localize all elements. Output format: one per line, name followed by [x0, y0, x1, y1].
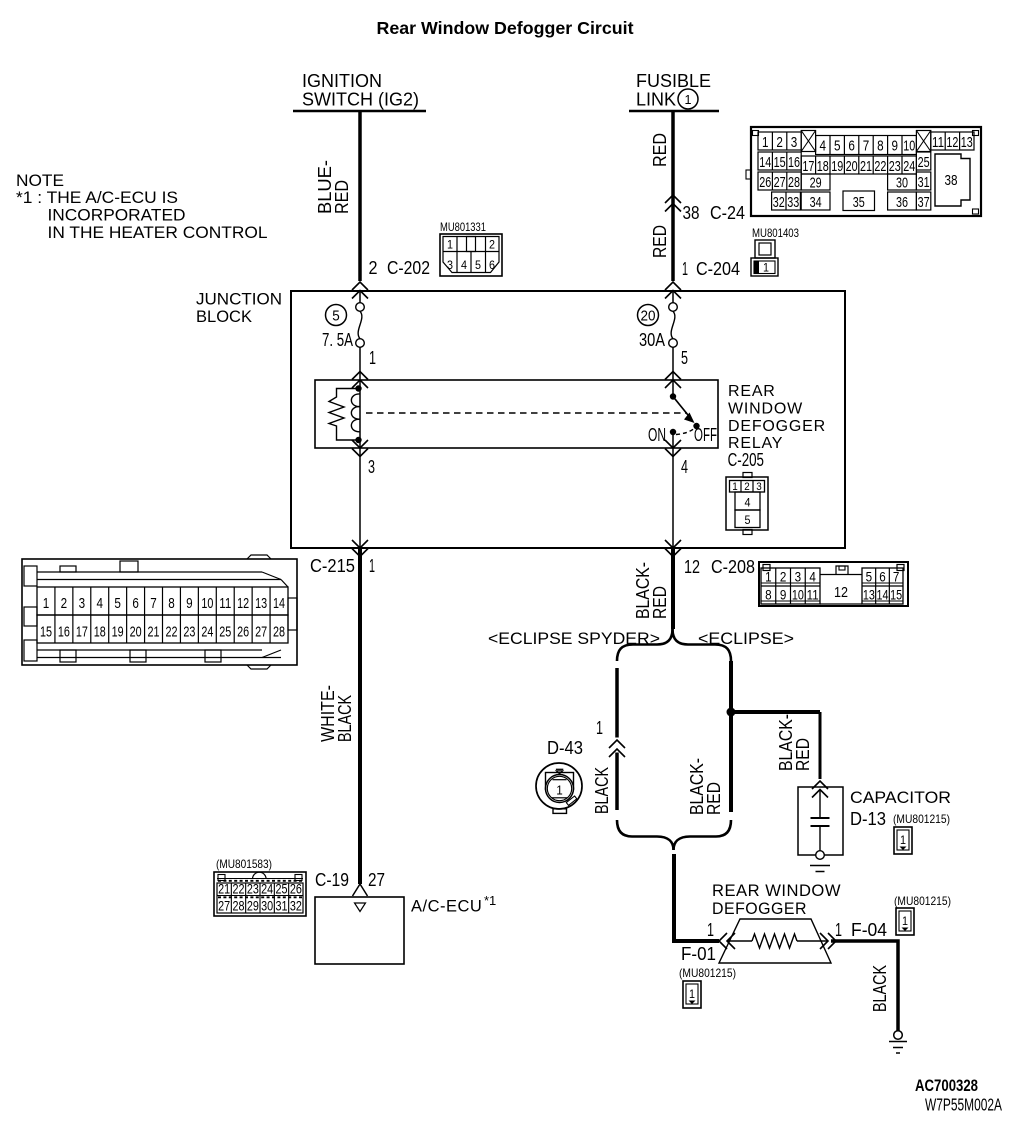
svg-text:1: 1	[689, 987, 695, 1001]
svg-text:1: 1	[707, 920, 714, 940]
svg-text:17: 17	[76, 624, 88, 641]
svg-text:5: 5	[866, 569, 873, 585]
svg-text:21: 21	[148, 624, 160, 641]
svg-text:12: 12	[684, 557, 700, 577]
svg-text:5: 5	[681, 348, 688, 368]
svg-text:INCORPORATED: INCORPORATED	[48, 206, 186, 225]
svg-text:23: 23	[889, 158, 901, 175]
svg-text:26: 26	[759, 174, 771, 191]
svg-text:1: 1	[685, 92, 692, 107]
svg-text:8: 8	[765, 587, 772, 603]
svg-text:3: 3	[756, 481, 762, 493]
svg-text:MU801331: MU801331	[440, 220, 486, 234]
svg-text:4: 4	[461, 258, 467, 272]
svg-text:12: 12	[237, 595, 249, 612]
svg-text:16: 16	[58, 624, 70, 641]
svg-text:26: 26	[237, 624, 249, 641]
svg-text:C-24: C-24	[710, 203, 745, 223]
svg-text:30A: 30A	[639, 330, 665, 350]
svg-text:1: 1	[596, 718, 603, 738]
svg-text:31: 31	[276, 898, 288, 914]
svg-text:38: 38	[945, 172, 958, 189]
svg-text:2: 2	[61, 595, 68, 612]
svg-text:DEFOGGER: DEFOGGER	[728, 418, 826, 435]
svg-text:5: 5	[745, 513, 751, 527]
svg-text:3: 3	[795, 569, 802, 585]
svg-text:MU801403: MU801403	[752, 226, 799, 240]
svg-text:FUSIBLE: FUSIBLE	[636, 71, 711, 91]
svg-text:20: 20	[846, 158, 858, 175]
svg-text:RED: RED	[650, 133, 670, 167]
svg-text:9: 9	[780, 587, 787, 603]
svg-text:13: 13	[961, 134, 973, 151]
svg-text:33: 33	[787, 194, 799, 211]
svg-text:RED: RED	[332, 180, 352, 214]
svg-text:6: 6	[132, 595, 139, 612]
svg-text:4: 4	[820, 138, 827, 155]
svg-text:3: 3	[791, 134, 798, 151]
svg-text:10: 10	[201, 595, 213, 612]
svg-text:WINDOW: WINDOW	[728, 401, 803, 418]
svg-text:7. 5A: 7. 5A	[322, 330, 353, 350]
svg-text:25: 25	[276, 881, 288, 897]
svg-text:BLACK: BLACK	[870, 965, 890, 1012]
svg-text:4: 4	[681, 457, 688, 477]
svg-text:5: 5	[332, 309, 340, 325]
svg-text:ON: ON	[648, 425, 666, 445]
svg-text:1: 1	[763, 261, 769, 275]
svg-text:15: 15	[774, 154, 786, 171]
svg-text:4: 4	[809, 569, 816, 585]
svg-text:24: 24	[261, 881, 273, 897]
svg-text:1: 1	[556, 783, 563, 798]
svg-text:22: 22	[874, 158, 886, 175]
svg-text:OFF: OFF	[694, 425, 717, 445]
svg-text:17: 17	[802, 158, 814, 175]
svg-text:SWITCH (IG2): SWITCH (IG2)	[302, 90, 419, 110]
svg-text:2: 2	[489, 238, 495, 252]
svg-text:1: 1	[900, 833, 906, 847]
svg-text:23: 23	[183, 624, 195, 641]
svg-text:25: 25	[918, 154, 930, 171]
svg-text:15: 15	[890, 587, 902, 603]
svg-text:21: 21	[860, 158, 872, 175]
svg-text:F-01: F-01	[681, 944, 716, 964]
svg-text:24: 24	[903, 158, 915, 175]
svg-text:34: 34	[810, 194, 822, 211]
svg-text:12: 12	[834, 584, 848, 601]
svg-text:1: 1	[835, 920, 842, 940]
svg-text:1: 1	[682, 259, 688, 279]
svg-text:4: 4	[97, 595, 104, 612]
svg-text:32: 32	[773, 194, 785, 211]
svg-text:(MU801215): (MU801215)	[679, 966, 736, 980]
svg-text:Rear Window Defogger Circuit: Rear Window Defogger Circuit	[377, 18, 634, 38]
svg-text:18: 18	[817, 158, 829, 175]
svg-text:8: 8	[877, 138, 884, 155]
svg-text:7: 7	[893, 569, 900, 585]
svg-text:22: 22	[165, 624, 177, 641]
svg-text:6: 6	[879, 569, 886, 585]
svg-text:28: 28	[273, 624, 285, 641]
svg-text:CAPACITOR: CAPACITOR	[850, 788, 951, 807]
svg-text:37: 37	[918, 194, 930, 211]
svg-text:3: 3	[447, 258, 453, 272]
svg-text:1: 1	[43, 595, 50, 612]
svg-text:16: 16	[788, 154, 800, 171]
svg-text:BLOCK: BLOCK	[196, 307, 253, 326]
svg-text:RED: RED	[704, 782, 724, 815]
svg-text:5: 5	[114, 595, 121, 612]
svg-text:(MU801215): (MU801215)	[893, 812, 950, 826]
svg-text:27: 27	[368, 870, 385, 890]
svg-text:(MU801215): (MU801215)	[894, 894, 951, 908]
svg-text:13: 13	[255, 595, 267, 612]
svg-text:F-04: F-04	[851, 920, 887, 940]
svg-text:38: 38	[683, 203, 700, 223]
svg-text:10: 10	[903, 138, 915, 155]
svg-text:19: 19	[112, 624, 124, 641]
svg-text:C-202: C-202	[387, 258, 430, 278]
svg-text:BLACK: BLACK	[335, 695, 355, 742]
svg-text:REAR: REAR	[728, 383, 776, 400]
svg-text:14: 14	[877, 587, 889, 603]
svg-text:15: 15	[40, 624, 52, 641]
svg-text:13: 13	[863, 587, 875, 603]
svg-text:7: 7	[863, 138, 870, 155]
svg-text:*1: *1	[484, 893, 496, 908]
svg-text:24: 24	[201, 624, 213, 641]
svg-text:5: 5	[475, 258, 481, 272]
svg-text:1: 1	[447, 238, 453, 252]
svg-text:1: 1	[762, 134, 769, 151]
svg-text:RED: RED	[650, 225, 670, 258]
svg-text:5: 5	[834, 138, 841, 155]
svg-text:11: 11	[807, 587, 819, 603]
svg-text:RED: RED	[650, 586, 670, 619]
svg-text:19: 19	[831, 158, 843, 175]
svg-text:2: 2	[780, 569, 787, 585]
svg-text:9: 9	[892, 138, 899, 155]
svg-text:30: 30	[261, 898, 273, 914]
svg-text:9: 9	[186, 595, 193, 612]
svg-text:10: 10	[792, 587, 804, 603]
svg-text:27: 27	[218, 898, 230, 914]
svg-text:11: 11	[219, 595, 231, 612]
svg-text:JUNCTION: JUNCTION	[196, 290, 282, 309]
svg-text:W7P55M002A: W7P55M002A	[925, 1095, 1002, 1115]
svg-text:36: 36	[896, 194, 908, 211]
svg-text:DEFOGGER: DEFOGGER	[712, 900, 807, 918]
svg-text:LINK: LINK	[636, 90, 676, 110]
svg-text:D-43: D-43	[547, 738, 583, 758]
svg-text:4: 4	[745, 496, 751, 510]
svg-text:C-19: C-19	[315, 870, 349, 890]
svg-text:22: 22	[233, 881, 245, 897]
svg-text:C-205: C-205	[728, 450, 764, 470]
svg-text:2: 2	[744, 481, 750, 493]
svg-text:*1 : THE A/C-ECU IS: *1 : THE A/C-ECU IS	[16, 188, 178, 207]
svg-text:6: 6	[848, 138, 855, 155]
svg-text:14: 14	[273, 595, 285, 612]
svg-text:12: 12	[946, 134, 958, 151]
svg-text:C-208: C-208	[711, 557, 755, 577]
svg-text:20: 20	[641, 309, 656, 325]
svg-text:BLACK: BLACK	[592, 767, 612, 814]
svg-text:1: 1	[732, 481, 738, 493]
svg-text:7: 7	[150, 595, 157, 612]
svg-text:20: 20	[130, 624, 142, 641]
svg-text:1: 1	[369, 556, 375, 576]
svg-text:3: 3	[368, 457, 375, 477]
svg-text:1: 1	[902, 914, 908, 928]
svg-text:RED: RED	[793, 738, 813, 771]
svg-text:23: 23	[247, 881, 259, 897]
svg-text:IN THE HEATER CONTROL: IN THE HEATER CONTROL	[48, 223, 268, 242]
svg-text:A/C-ECU: A/C-ECU	[411, 898, 482, 916]
svg-text:25: 25	[219, 624, 231, 641]
svg-text:29: 29	[247, 898, 259, 914]
svg-text:1: 1	[369, 348, 376, 368]
svg-text:35: 35	[853, 194, 865, 211]
svg-text:30: 30	[896, 175, 908, 192]
svg-text:27: 27	[774, 174, 786, 191]
svg-text:18: 18	[94, 624, 106, 641]
svg-text:27: 27	[255, 624, 267, 641]
svg-text:C-204: C-204	[696, 259, 740, 279]
svg-text:14: 14	[759, 154, 771, 171]
svg-text:3: 3	[79, 595, 86, 612]
svg-text:REAR WINDOW: REAR WINDOW	[712, 882, 841, 900]
svg-text:8: 8	[168, 595, 175, 612]
svg-text:2: 2	[369, 258, 378, 278]
svg-text:D-13: D-13	[850, 809, 886, 829]
svg-text:C-215: C-215	[310, 556, 355, 576]
svg-text:1: 1	[765, 569, 772, 585]
svg-text:AC700328: AC700328	[915, 1077, 978, 1095]
svg-text:2: 2	[776, 134, 783, 151]
svg-text:6: 6	[489, 258, 495, 272]
svg-text:IGNITION: IGNITION	[302, 71, 382, 91]
svg-text:32: 32	[290, 898, 302, 914]
svg-text:28: 28	[788, 174, 800, 191]
svg-text:11: 11	[932, 134, 944, 151]
svg-text:28: 28	[233, 898, 245, 914]
svg-text:21: 21	[218, 881, 230, 897]
svg-text:29: 29	[810, 175, 822, 192]
svg-text:31: 31	[918, 174, 930, 191]
svg-text:(MU801583): (MU801583)	[216, 857, 272, 871]
svg-text:26: 26	[290, 881, 302, 897]
